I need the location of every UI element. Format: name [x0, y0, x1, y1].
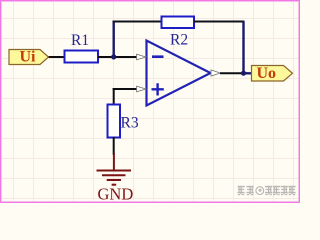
wire corner down to R3 [113, 88, 115, 105]
wire output to node [220, 72, 244, 74]
svg-text:R3: R3 [121, 115, 139, 132]
resistor R3 [108, 105, 139, 138]
wire from Ui to R1 [47, 56, 65, 58]
wire from + corner to non-inverting input [113, 88, 137, 90]
svg-text:GND: GND [98, 185, 134, 204]
node junction A [111, 54, 116, 59]
wire junction A up to feedback rail [112, 22, 114, 58]
pin arrow non-inverting input [137, 86, 146, 92]
node output junction [241, 71, 246, 76]
wire feedback rail right segment [194, 21, 245, 23]
pin arrow output [211, 70, 220, 76]
port Ui [9, 49, 49, 66]
svg-text:R1: R1 [71, 32, 89, 49]
resistor R1 [65, 32, 99, 63]
wire node to Uo [244, 72, 253, 74]
wire feedback rail left segment [113, 21, 163, 23]
resistor R2 [162, 17, 195, 49]
port Uo [252, 65, 293, 82]
wire down to output node [242, 22, 244, 74]
wire from R1 to inverting input [98, 56, 137, 58]
ground [97, 153, 134, 204]
svg-text:Uo: Uo [257, 65, 277, 82]
svg-text:Ui: Ui [20, 49, 37, 66]
watermark [238, 186, 296, 195]
svg-text:R2: R2 [170, 31, 188, 48]
pin arrow inverting input [137, 54, 146, 60]
wire R3 to ground [113, 137, 115, 155]
op-amp U1 [147, 41, 211, 106]
